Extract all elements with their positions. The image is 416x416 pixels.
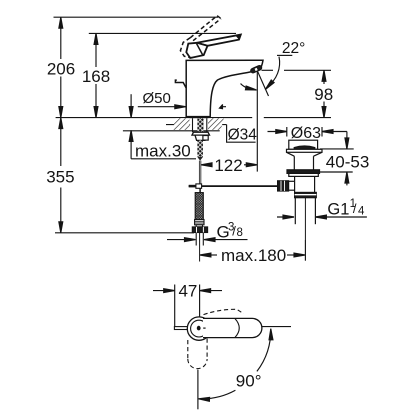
mounting nut bbox=[195, 135, 207, 140]
dimension max.30 bbox=[129, 94, 196, 160]
faucet base joint dark band bbox=[186, 116, 210, 118]
svg-text:G1: G1 bbox=[327, 201, 349, 219]
svg-text:90°: 90° bbox=[236, 372, 262, 391]
spout outlet reference line (98) bbox=[262, 69, 274, 71]
washer ring bbox=[289, 173, 319, 176]
threaded stud upper bbox=[197, 118, 203, 132]
svg-text:max.30: max.30 bbox=[135, 142, 191, 161]
svg-text:47: 47 bbox=[178, 281, 197, 300]
mounting shank tube bbox=[192, 118, 194, 132]
deck hatch right bbox=[208, 118, 224, 130]
drain neck bbox=[293, 156, 295, 170]
svg-text:206: 206 bbox=[47, 59, 75, 78]
svg-text:40-53: 40-53 bbox=[326, 152, 369, 171]
braided flex hose bbox=[195, 193, 203, 220]
hose collar bbox=[195, 220, 204, 225]
svg-text:355: 355 bbox=[46, 168, 74, 187]
drain body bbox=[294, 176, 296, 192]
deck bottom line bbox=[123, 130, 220, 132]
side hook detail bbox=[175, 80, 186, 88]
svg-text:98: 98 bbox=[314, 85, 333, 104]
reference line 168 bbox=[89, 32, 236, 34]
dimension 355 bbox=[46, 118, 74, 233]
dimension 47 bbox=[153, 281, 222, 327]
body circle outer bbox=[187, 317, 210, 340]
dashed raised lever bbox=[180, 16, 221, 58]
supply stub left bbox=[174, 327, 187, 330]
handle dot bbox=[197, 326, 201, 331]
dimension 22 degrees bbox=[237, 40, 305, 172]
D63 flange bbox=[287, 149, 323, 152]
clamp knob bbox=[278, 181, 289, 191]
washer bbox=[192, 132, 210, 135]
body circle inner bbox=[191, 320, 208, 337]
svg-text:Ø63: Ø63 bbox=[291, 125, 321, 142]
svg-text:8: 8 bbox=[237, 227, 243, 239]
coupling ring bbox=[295, 192, 317, 197]
threaded stud lower bbox=[197, 140, 203, 157]
lever cap bbox=[186, 43, 207, 58]
dashed rotated lever (up) bbox=[204, 309, 244, 314]
dimension 122 bbox=[201, 156, 257, 175]
deck hatch left bbox=[172, 118, 189, 130]
svg-text:Ø50: Ø50 bbox=[143, 90, 171, 107]
svg-text:/: / bbox=[353, 201, 357, 216]
tailpipe bbox=[294, 198, 296, 225]
dimension 168 bbox=[82, 33, 110, 117]
dimension 40-53 bbox=[320, 132, 369, 186]
lever cap seam bbox=[235, 319, 239, 338]
dimension G1 1/4 bbox=[277, 198, 367, 219]
gasket ring bbox=[287, 170, 320, 174]
dimension 98 bbox=[314, 70, 333, 117]
dimension 90 degrees bbox=[198, 327, 291, 410]
flange shoulder bbox=[287, 152, 323, 156]
deck top line bbox=[56, 117, 253, 119]
rod clamp joint bbox=[196, 184, 202, 188]
svg-text:max.180: max.180 bbox=[221, 246, 286, 265]
svg-text:168: 168 bbox=[82, 67, 110, 86]
dimension D34 bbox=[166, 123, 257, 144]
dimension D50 bbox=[138, 90, 226, 108]
dashed lever pointing down bbox=[188, 339, 207, 369]
top reference line (206) bbox=[54, 16, 219, 18]
plug disc bbox=[294, 146, 315, 149]
rod port bbox=[289, 180, 295, 182]
svg-text:22°: 22° bbox=[282, 40, 305, 57]
bottom reference line (355) bbox=[55, 232, 194, 234]
G3/8 hex nut bbox=[192, 227, 207, 233]
faucet body and spout bbox=[186, 60, 263, 117]
svg-text:Ø34: Ø34 bbox=[228, 127, 258, 144]
svg-text:4: 4 bbox=[358, 206, 365, 218]
pop-up horizontal rod bbox=[189, 185, 278, 187]
G3/8 tailpiece bbox=[195, 233, 197, 246]
dimension D63 bbox=[268, 125, 347, 142]
spout outlet aerator bbox=[250, 65, 262, 74]
dimension G3/8 bbox=[167, 221, 248, 241]
dimension max.180 bbox=[200, 240, 306, 265]
dimension 206 bbox=[47, 17, 75, 117]
drain top cylinder bbox=[289, 140, 318, 149]
svg-text:122: 122 bbox=[214, 156, 242, 175]
pop-up rod vertical bbox=[199, 161, 201, 185]
lever top view bbox=[203, 318, 262, 337]
lever handle blade bbox=[197, 35, 241, 46]
